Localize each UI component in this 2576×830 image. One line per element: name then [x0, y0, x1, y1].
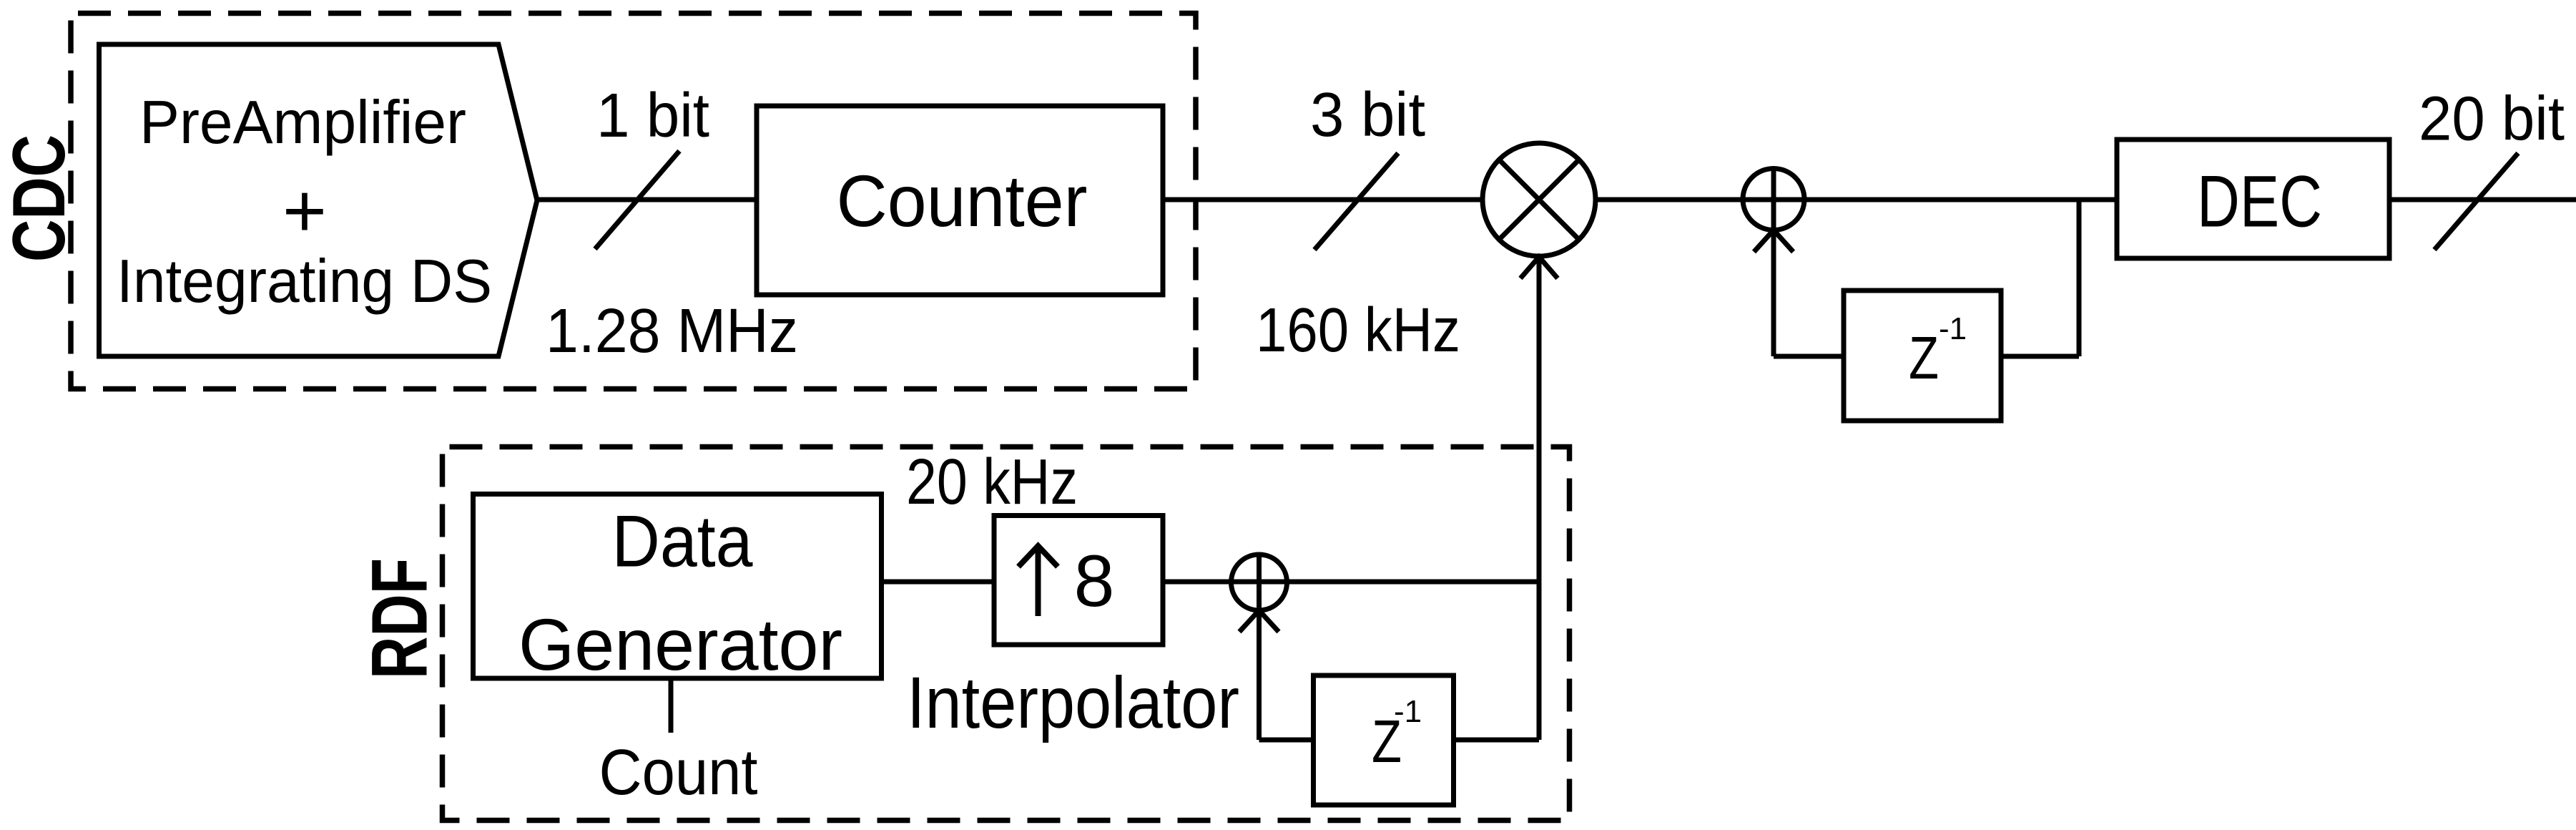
svg-text:20 bit: 20 bit [2419, 84, 2565, 154]
svg-text:Interpolator: Interpolator [907, 662, 1239, 743]
svg-text:Z: Z [1909, 324, 1939, 391]
svg-text:Counter: Counter [837, 160, 1088, 242]
svg-text:20 kHz: 20 kHz [906, 446, 1078, 518]
svg-text:DEC: DEC [2197, 161, 2322, 243]
svg-text:Integrating DS: Integrating DS [117, 248, 492, 316]
svg-text:Generator: Generator [518, 604, 842, 685]
svg-text:Count: Count [599, 737, 758, 809]
svg-text:PreAmplifier: PreAmplifier [139, 89, 466, 157]
svg-text:Data: Data [612, 501, 753, 582]
svg-text:-1: -1 [1394, 694, 1422, 729]
svg-text:8: 8 [1074, 540, 1115, 622]
svg-text:160 kHz: 160 kHz [1256, 296, 1460, 365]
svg-text:-1: -1 [1939, 311, 1967, 346]
svg-text:3 bit: 3 bit [1310, 80, 1425, 150]
svg-text:1.28 MHz: 1.28 MHz [546, 296, 798, 366]
svg-text:CDC: CDC [0, 135, 81, 262]
svg-text:+: + [282, 169, 327, 253]
svg-text:RDF: RDF [356, 558, 444, 679]
svg-text:1 bit: 1 bit [596, 81, 709, 150]
